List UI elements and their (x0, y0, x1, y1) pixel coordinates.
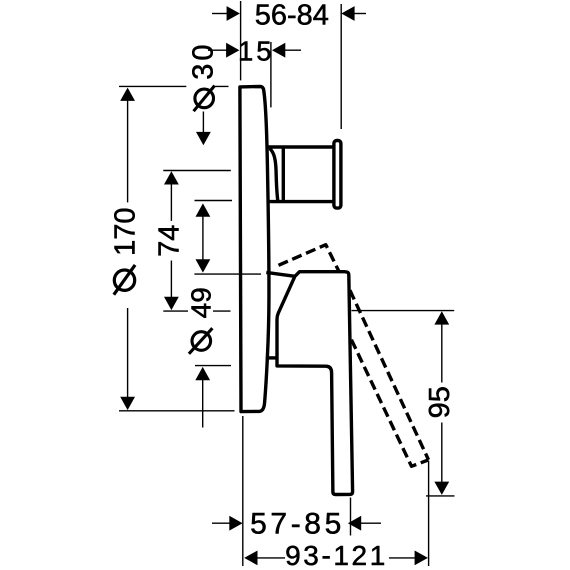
svg-text:49: 49 (186, 287, 217, 318)
dim 15 right arrow (285, 49, 301, 51)
dim O30 up arrow (196, 203, 211, 216)
dim O30/O49 shared line (202, 216, 204, 261)
svg-text:15: 15 (238, 35, 275, 66)
dim O30 down arrow (202, 112, 204, 134)
dim 56-84 left arrow (212, 13, 228, 15)
plate-hub connector tick (266, 356, 277, 359)
dim 57-85 left arrow (212, 522, 231, 524)
dim 74 down arrow (170, 261, 172, 298)
diameter symbol for 49 (189, 328, 213, 354)
dim O170 up arrow (127, 100, 129, 203)
extension line hub bottom (195, 365, 231, 367)
extension line 95 top (352, 310, 455, 312)
dim 93-121 right arrow (389, 557, 416, 559)
diameter symbol for 170 (114, 265, 135, 295)
extension line 95 bottom (426, 495, 455, 497)
dim O170 down arrow (127, 308, 129, 399)
extension line plate top (119, 85, 229, 87)
handle hub and lever (solid) (277, 272, 353, 495)
cylinder top edge (266, 145, 335, 148)
lever raised position lower edge (dashed) (351, 340, 428, 467)
svg-text:93-121: 93-121 (285, 540, 388, 570)
extension line 15 right (270, 42, 272, 107)
dim 95 down arrow (441, 423, 443, 483)
dim O49 up arrow (202, 379, 204, 428)
dim 74 up arrow (170, 184, 172, 221)
extension line hub top (194, 273, 261, 275)
extension line wall face top (240, 1, 242, 80)
extension line wall face bottom (242, 416, 244, 566)
extension line lever edge (350, 498, 352, 536)
svg-text:57-85: 57-85 (250, 507, 345, 540)
extension line 74 bottom (163, 310, 230, 312)
svg-text:56-84: 56-84 (255, 0, 329, 31)
hub-to-plate joint edge (266, 272, 295, 276)
dim O49 down arrow (196, 259, 211, 272)
extension line cylinder bottom (195, 200, 233, 202)
extension line cap face (340, 4, 342, 129)
svg-text:74: 74 (154, 225, 186, 257)
dim 57-85 right arrow (360, 522, 381, 524)
cylinder bottom edge (267, 200, 335, 203)
dim 95 up arrow (441, 323, 443, 383)
sleeve flange line (282, 147, 285, 202)
end cap (334, 141, 341, 209)
svg-text:30: 30 (188, 41, 220, 79)
dim 93-121 left arrow (257, 557, 286, 559)
extension line dashed tip (428, 461, 430, 566)
extension line 74 top (163, 170, 231, 172)
valve sleeve cone profile (270, 148, 278, 201)
svg-text:170: 170 (110, 208, 142, 256)
diameter symbol for 30 (194, 86, 215, 112)
svg-text:95: 95 (424, 386, 456, 418)
dim 56-84 right arrow (354, 13, 366, 15)
extension line plate bottom (119, 410, 235, 412)
lever raised position (dashed) (279, 245, 339, 271)
escutcheon plate (side view) (240, 87, 269, 412)
dim 15 left arrow (208, 49, 227, 51)
